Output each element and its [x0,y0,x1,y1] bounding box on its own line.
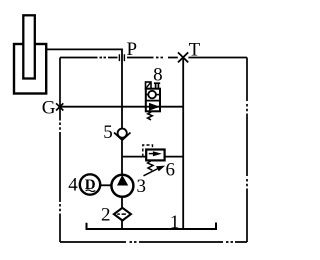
wire: cylinder to port P and down to check valve [47,49,122,128]
svg-text:8: 8 [153,65,163,86]
enclosure border top (phantom line) [60,57,247,59]
svg-text:G: G [42,98,56,119]
enclosure border right [246,58,248,243]
valve 8 ball on seat line [146,91,160,99]
wire: T return line down to tank [182,57,184,229]
wire: pump outlet down [121,198,123,208]
valve 8 spring [148,112,153,120]
pump 3 circle [111,175,133,197]
check valve 5 circle [118,129,127,138]
svg-text:1: 1 [170,212,180,233]
svg-text:4: 4 [68,175,78,196]
filter 2 diamond [114,208,131,221]
motor 4 circle [80,174,100,194]
tank 1 [87,223,217,230]
wire: filter to tank [121,221,123,230]
wire: relief branch [122,156,183,158]
wire: check valve to pump [121,140,123,175]
enclosure border left [59,58,61,243]
port P ticks [119,54,124,61]
relief valve 6 arrow [149,153,154,155]
port T cross [178,52,188,62]
svg-text:3: 3 [136,176,146,197]
svg-text:P: P [127,39,138,60]
valve 8 body [146,89,160,112]
check valve 5 seat [114,133,131,141]
port G cross [56,103,63,110]
motor tilde [86,190,96,192]
shaft: motor to pump [100,184,111,186]
svg-text:5: 5 [103,122,113,143]
pump 3 triangle [117,175,128,186]
cylinder piston rod [23,15,35,78]
filter 2 mesh dash [117,213,126,215]
valve 8 arrow [147,104,158,110]
valve 8 drain square [146,82,152,89]
relief valve 6 spring [148,160,153,170]
wire: G line across to T return [60,106,183,108]
relief valve 6 body [146,150,164,161]
svg-text:6: 6 [165,159,175,180]
cylinder body [14,44,46,94]
relief valve 6 adjust arrow [144,166,166,176]
relief valve 6 pilot line [143,145,153,157]
enclosure border bottom [60,241,247,243]
svg-text:T: T [189,39,201,60]
svg-text:2: 2 [101,205,111,226]
valve 8 vent post [154,83,160,89]
